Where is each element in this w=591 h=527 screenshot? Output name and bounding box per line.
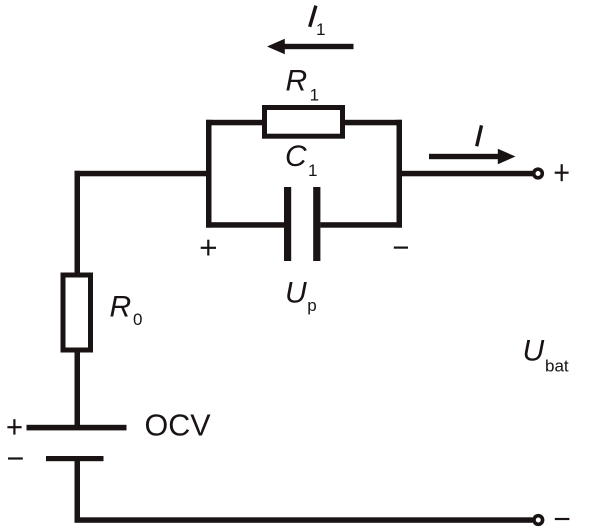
- label + at battery: [7, 419, 21, 434]
- RC block: top wire: [206, 120, 402, 126]
- label OCV: [145, 409, 212, 443]
- capacitor C1 left plate: [284, 187, 291, 261]
- wire: battery to bottom rail: [75, 461, 81, 520]
- resistor R1: [265, 108, 343, 137]
- label - at RC block: [394, 247, 408, 249]
- terminal: bottom output node: [534, 516, 543, 525]
- wire: mid-left horizontal from left branch corner to RC block: [75, 171, 212, 177]
- svg-text:1: 1: [308, 161, 317, 180]
- wire: bottom rail horizontal: [75, 517, 533, 523]
- label I1: [310, 6, 326, 39]
- svg-text:bat: bat: [545, 357, 569, 376]
- label Ubat: [523, 335, 569, 376]
- battery OCV top plate (+): [27, 425, 127, 431]
- svg-text:U: U: [285, 277, 307, 310]
- RC block: right vertical wire: [397, 120, 403, 228]
- capacitor C1 right plate: [313, 187, 320, 261]
- svg-text:1: 1: [310, 86, 319, 105]
- label C1: [285, 140, 317, 180]
- label R1: [286, 65, 320, 105]
- RC block: bottom wire right segment: [320, 222, 402, 228]
- label + at RC block: [201, 240, 216, 256]
- svg-text:U: U: [523, 335, 545, 368]
- battery OCV bottom plate (-): [46, 456, 104, 461]
- svg-text:R: R: [286, 65, 308, 98]
- label - at battery: [8, 457, 23, 459]
- RC block: bottom wire left segment: [206, 222, 285, 228]
- wire: mid-right horizontal from RC block to top terminal: [397, 171, 533, 177]
- svg-text:p: p: [307, 296, 316, 315]
- arrow I (output current, pointing right): [429, 149, 516, 164]
- wire: R0 to battery: [75, 350, 81, 426]
- RC block: left vertical wire: [206, 120, 212, 228]
- svg-text:OCV: OCV: [145, 409, 212, 443]
- svg-text:0: 0: [133, 310, 142, 329]
- arrow I1 (current through R1, pointing left): [267, 39, 354, 54]
- label Up: [285, 277, 317, 316]
- svg-text:C: C: [285, 140, 307, 173]
- label + at top terminal: [555, 164, 569, 181]
- label I: [477, 125, 482, 146]
- svg-text:R: R: [110, 290, 132, 323]
- label R0: [110, 290, 143, 329]
- resistor R0: [63, 275, 91, 350]
- wire: left branch vertical down to R0: [75, 171, 81, 273]
- svg-text:1: 1: [316, 20, 325, 39]
- terminal: top output node: [534, 169, 543, 178]
- label - at bottom terminal: [555, 518, 570, 520]
